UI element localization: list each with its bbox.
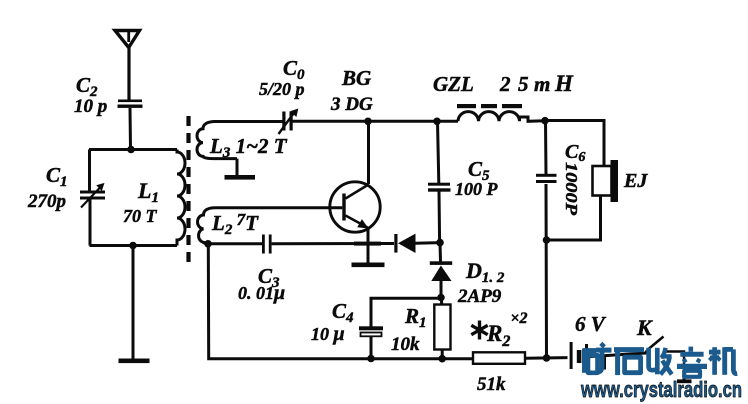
wire R2 to battery node xyxy=(525,356,568,360)
node C6 junction top xyxy=(541,117,549,125)
inductor L1 xyxy=(177,150,185,246)
wire tank left upper xyxy=(88,150,91,193)
wire collector vertical xyxy=(367,121,370,184)
capacitor C5 xyxy=(428,183,450,186)
switch K xyxy=(649,337,664,350)
speaker EJ xyxy=(593,166,612,196)
svg-text:10k: 10k xyxy=(391,334,420,355)
node battery junction xyxy=(543,354,551,362)
wire speaker bottom xyxy=(547,196,601,241)
transformer core (dashed) xyxy=(186,116,190,262)
inductor L2 xyxy=(198,208,343,244)
wire C3 to emitter junction and diode xyxy=(272,242,394,245)
diode detector (horizontal) xyxy=(394,234,397,253)
node collector junction xyxy=(364,118,372,126)
wire top rail to C5 node xyxy=(369,120,438,123)
node A (tank top junction) xyxy=(127,146,135,154)
wire rail to GZL xyxy=(437,120,458,123)
svg-text:K: K xyxy=(636,315,653,340)
battery 6V xyxy=(570,342,573,369)
wire top rail C0 to collector node xyxy=(292,120,369,123)
wire antenna lead xyxy=(127,47,130,100)
ground (emitter) xyxy=(352,263,385,268)
svg-text:6 V: 6 V xyxy=(575,312,607,336)
antenna xyxy=(115,31,140,48)
wire tank ground lead xyxy=(132,246,135,360)
diode D1,2 (vertical) xyxy=(430,261,452,265)
inductor GZL xyxy=(458,112,545,122)
node L2 bottom junction xyxy=(204,240,212,248)
wire tank bottom xyxy=(90,244,178,247)
capacitor C2 xyxy=(118,100,142,103)
GZL core dashes xyxy=(457,104,476,108)
svg-text:100 P: 100 P xyxy=(455,179,499,199)
svg-text:10 μ: 10 μ xyxy=(311,323,345,345)
resistor R2 xyxy=(473,352,525,364)
capacitor C0 (trimmer) xyxy=(282,112,285,131)
node C4 bottom junction xyxy=(367,355,375,363)
watermark xyxy=(580,343,742,402)
wire rail right end xyxy=(545,121,604,167)
node C6 junction bottom xyxy=(543,236,551,244)
ground (L3) xyxy=(225,175,256,180)
capacitor C1 (variable) xyxy=(80,191,105,194)
node C5 junction xyxy=(433,118,441,126)
ground (tank) xyxy=(119,359,150,364)
wire C2 to tank top xyxy=(129,108,133,149)
svg-text:3 DG: 3 DG xyxy=(330,94,373,115)
wire L2 node to C3 xyxy=(208,242,262,245)
svg-text:0. 01μ: 0. 01μ xyxy=(238,282,285,304)
svg-text:1000P: 1000P xyxy=(562,162,581,216)
svg-text:270p: 270p xyxy=(27,191,66,212)
inductor L3 xyxy=(197,122,284,159)
node tank bottom junction xyxy=(129,242,137,250)
transistor Q1 BG xyxy=(330,182,380,232)
wire C6 branch vertical xyxy=(546,121,547,358)
wire tank top xyxy=(89,148,177,151)
capacitor C3 xyxy=(262,235,265,254)
node diode junction xyxy=(436,239,444,247)
svg-text:2AP9: 2AP9 xyxy=(457,286,502,307)
svg-text:L3 1~2 T: L3 1~2 T xyxy=(209,134,288,161)
wire bottom rail left xyxy=(208,244,473,359)
wire battery to switch xyxy=(588,353,646,357)
node R1 bottom junction xyxy=(438,355,446,363)
node R1 top junction xyxy=(437,294,445,302)
svg-text:EJ: EJ xyxy=(623,170,648,192)
capacitor C4 xyxy=(359,326,383,330)
svg-text:BG: BG xyxy=(341,66,371,90)
svg-text:5/20 p: 5/20 p xyxy=(259,79,305,99)
wire tank left lower xyxy=(89,200,92,246)
resistor R1 xyxy=(434,305,450,350)
svg-text:www.crystalradio.cn: www.crystalradio.cn xyxy=(580,377,742,402)
wire node to R1 xyxy=(440,298,443,305)
svg-text:70 T: 70 T xyxy=(123,206,158,226)
wire C5 branch vertical upper xyxy=(438,121,440,242)
terminal post xyxy=(683,372,686,380)
wire emitter vertical xyxy=(367,228,370,264)
wire node to D12 xyxy=(439,243,443,262)
capacitor C6 xyxy=(536,174,557,177)
svg-text:10 p: 10 p xyxy=(74,96,107,117)
wire C4 branch horizontal xyxy=(371,298,441,326)
wire L3 to ground xyxy=(236,159,239,176)
svg-text:51k: 51k xyxy=(477,374,506,395)
label R2 x2 xyxy=(471,321,487,340)
